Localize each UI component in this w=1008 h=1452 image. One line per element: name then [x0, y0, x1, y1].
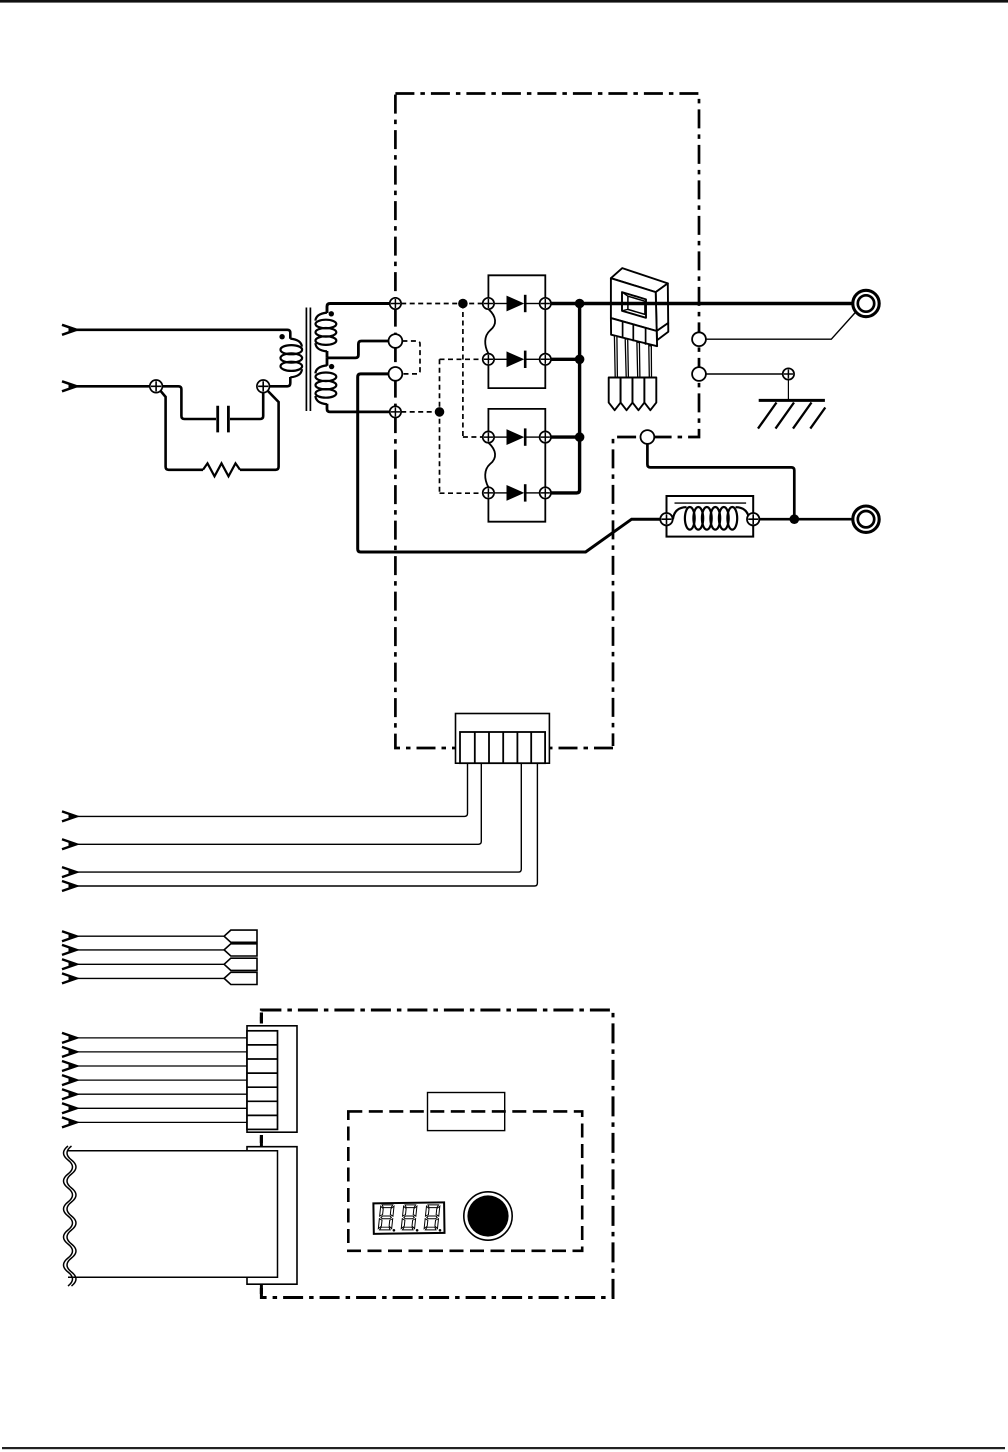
weld inductor L1 [660, 496, 759, 537]
wire: J1 pin 2 [77, 763, 481, 844]
arrow J1 pin 2 [62, 839, 79, 849]
wire: spade lead 4 [77, 977, 224, 979]
dashed link: C1 to C2 [402, 341, 420, 374]
arrow J2 pin 5 [62, 1089, 79, 1099]
power PCB outline (dash-dot box A) [395, 94, 699, 749]
spade terminal 1 [224, 930, 257, 942]
arrow spade 1 [62, 931, 79, 941]
current sensor window [622, 292, 646, 318]
junction node at inductor output [790, 514, 800, 524]
terminal P4 [390, 406, 401, 417]
current sensor legs [614, 336, 651, 378]
transformer secondary coil S2 (bottom) [315, 365, 336, 404]
wire: node R1 to output stud 1 [706, 312, 856, 339]
arrow spade 2 [62, 945, 79, 955]
arrow spade 4 [62, 973, 79, 983]
wire: node R3 to inductor output [647, 444, 794, 519]
control knob [464, 1192, 512, 1240]
terminal T1 [150, 380, 163, 393]
wire: S1 top lead to terminal P1 [327, 304, 389, 314]
wire: circle node C2 down to weld inductor (thick return path) [358, 374, 661, 552]
node R1 on PCB edge (voltage sense) [692, 332, 706, 346]
bus junction node row1 [575, 299, 585, 309]
wire: spade lead 2 [77, 949, 224, 951]
output stud 2 (negative) [853, 506, 879, 532]
ribbon cable connector J3 [247, 1147, 297, 1285]
junction node on net B [435, 407, 445, 417]
wire: J1 pin 1 [77, 763, 468, 816]
bus junction node row3 [575, 432, 585, 442]
spade terminal 4 [224, 972, 257, 984]
bridge rectifier module D2 [483, 409, 551, 522]
wire: S2 bottom lead to terminal P4 [327, 404, 389, 412]
arrow J2 pin 7 [62, 1117, 79, 1127]
wire: inductor to output stud 2 [760, 518, 854, 521]
main DC output wire through sensor [551, 302, 853, 306]
DC bus wire joining bridge outputs [551, 304, 580, 493]
arrow J1 pin 1 [62, 811, 79, 821]
current sensor body [611, 268, 668, 346]
terminal P1 [390, 298, 401, 309]
node R3 on control box edge [641, 430, 655, 444]
ribbon cable torn edge [64, 1146, 77, 1286]
ribbon cable [66, 1151, 278, 1277]
ground symbol [758, 400, 825, 428]
transformer primary coil [281, 339, 303, 378]
bridge rectifier module D1 [483, 275, 551, 388]
output stud 1 (positive) [853, 290, 879, 316]
arrow J2 pin 1 [62, 1033, 79, 1043]
control connector J1 on power PCB [456, 714, 550, 764]
wire: resistor to T2 [240, 391, 279, 470]
wire: AC input line 2 to terminal T1 [76, 385, 150, 388]
transformer secondary coil S1 (top) [315, 313, 336, 352]
wire: node R2 to earth terminal [706, 373, 782, 375]
input arrow 1 [62, 325, 79, 335]
arrow J1 pin 5 [62, 867, 79, 877]
dash of PCB edge above J2 [260, 1013, 263, 1295]
wire: primary bottom lead to T2 [270, 377, 291, 386]
terminal T2 [257, 380, 270, 393]
wire: spade lead 3 [77, 963, 224, 965]
centre-tap node C1 [389, 334, 403, 348]
resistor R1 [203, 463, 240, 476]
arrow J2 pin 6 [62, 1103, 79, 1113]
wire: T1 to resistor [161, 391, 203, 470]
secondary S1 polarity dot [329, 311, 334, 316]
junction node on net A [458, 299, 468, 309]
wire: S1 bottom lead / center tap to circle node C1 [327, 341, 388, 358]
control PCB outline (dash-dot box B) [261, 1010, 613, 1298]
spade terminal 2 [224, 944, 257, 956]
wire: spade lead 1 [77, 935, 224, 937]
arrow J1 pin 6 [62, 881, 79, 891]
wire: T1 to capacitor [163, 386, 216, 419]
potentiometer housing on front panel [428, 1093, 505, 1131]
wire: J1 pin 6 [77, 763, 537, 886]
wire: S2 top lead from center tap [326, 358, 329, 366]
arrow J2 pin 4 [62, 1075, 79, 1085]
wire: J1 pin 5 [77, 763, 521, 872]
current sensor header dividers [623, 321, 646, 344]
capacitor C1 [218, 406, 229, 433]
node R2 on PCB edge (earth sense) [692, 367, 706, 381]
input arrow 2 [62, 381, 79, 391]
secondary S2 polarity dot [329, 364, 334, 369]
current sensor pin tips [609, 378, 657, 411]
primary polarity dot [279, 334, 284, 339]
earth terminal [783, 368, 794, 399]
7-segment display [373, 1202, 444, 1233]
arrow J2 pin 3 [62, 1061, 79, 1071]
wire: AC input line 1 to transformer primary [76, 330, 290, 339]
dashed net A: P1 to bridge inputs [401, 304, 483, 438]
dashed net B: P4 to bridge inputs [401, 359, 483, 493]
control connector J2 (7-way) [247, 1026, 297, 1132]
arrow J2 pin 2 [62, 1047, 79, 1057]
wire: capacitor to T2 [230, 393, 263, 419]
wires to J2 pins [77, 1038, 247, 1123]
transformer core [306, 308, 310, 412]
front panel outline (dashed box) [348, 1111, 582, 1250]
spade terminal 3 [224, 958, 257, 970]
arrow spade 3 [62, 959, 79, 969]
bus junction node row2 [575, 355, 585, 365]
node C2 [389, 367, 403, 381]
